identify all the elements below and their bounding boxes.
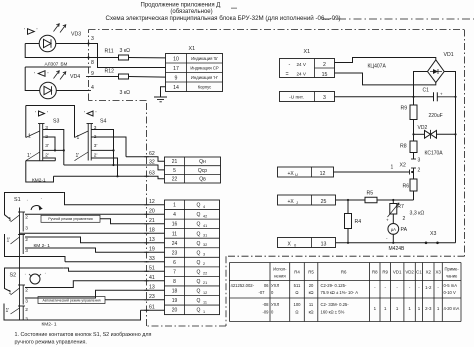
node C1 bus junction [454,96,456,98]
svg-text:': ' [37,28,38,34]
indicator symbol S3 arrow [35,111,48,117]
svg-text:2: 2 [418,168,421,174]
capacitor C1 [423,88,456,102]
wire S4 contact 3' stub [91,149,114,166]
svg-text:24 V: 24 V [297,72,307,77]
svg-text:Ручной режим управления: Ручной режим управления [48,217,93,221]
label VD1 [444,52,454,58]
svg-text:Qср: Qср [198,168,207,174]
wire VD1 right corner to plus bus [444,72,455,243]
svg-text:Q: Q [197,260,201,266]
S2 contact group 1 rail [18,285,25,305]
svg-text:12: 12 [320,171,326,177]
label KTs407A [368,64,387,70]
svg-text:VD2: VD2 [405,269,414,274]
S2 group2 lever [11,308,20,314]
svg-text:61: 61 [149,305,155,311]
svg-text:VD1: VD1 [393,269,402,274]
svg-text:Продолжение приложения Д: Продолжение приложения Д [141,3,221,9]
sheet frame dash line top right [323,18,474,20]
button S2 box [5,268,64,292]
S3 pin 1' label and lever [26,152,40,161]
svg-text:9: 9 [175,75,178,81]
svg-text:+X: +X [288,171,295,177]
svg-text:R9: R9 [382,269,388,274]
label X1 top [189,46,196,52]
wire 19 [25,247,165,253]
wire VD1 left corner to dc rail [414,72,428,97]
wire X0 bottom line [336,242,427,244]
label AL307 BM [45,62,68,67]
note line 1 [15,332,152,338]
value label 220uF [429,113,443,119]
indicator symbol 'M' arrow [34,71,49,78]
svg-text:13: 13 [149,285,155,291]
wire 13 [25,237,165,243]
switch S4 contact rail [87,124,94,161]
svg-text:62: 62 [149,151,155,157]
svg-text:Ω: Ω [295,310,298,315]
svg-text:R4: R4 [355,219,362,225]
wire S4 contact 2 to wire 62 [91,137,126,157]
svg-text:S3: S3 [53,119,59,125]
wire S3 contact 3 bridge [43,130,64,166]
unit boundary dash-dot border [89,30,465,327]
button S1 box [5,193,64,220]
svg-text:Q: Q [197,222,201,228]
svg-text:КС170А: КС170А [425,151,444,157]
svg-text:1': 1' [6,308,10,314]
svg-text:.: . [25,271,26,277]
svg-text:16: 16 [172,222,178,228]
svg-text:4-20 mA: 4-20 mA [444,306,460,311]
svg-text:S1: S1 [14,197,21,203]
svg-text:32: 32 [203,243,207,247]
svg-text:25: 25 [321,199,327,205]
S4 contact labels [94,125,98,159]
svg-text:C1: C1 [423,88,430,94]
svg-text:R5: R5 [308,269,314,274]
resistor R12 [105,69,129,80]
boundary pin ticks x=146 [144,157,148,311]
value label 3.3 kOhm [410,211,425,217]
svg-text:100: 100 [294,302,302,307]
svg-text:0-10 V: 0-10 V [444,290,457,295]
S2 group1 lever [11,288,20,295]
svg-text:X2: X2 [426,269,432,274]
label VD4 [70,74,80,80]
relay KM2-1 box S2 [4,304,141,321]
wire R5 to R6 node [377,199,414,201]
wire X1 pin15 to VD1 bottom [335,73,436,85]
resistor R5 [365,191,377,203]
title line 2 [170,9,212,15]
relay KM2-1 box S3 [26,161,56,182]
svg-text:2: 2 [403,216,406,222]
svg-text:11: 11 [172,231,177,237]
svg-text:VD3: VD3 [71,32,81,38]
boundary pin ticks x=88 [86,44,91,91]
svg-text:U: U [295,172,298,177]
svg-text:2-3: 2-3 [425,306,432,311]
switch S3 contact rail [38,124,45,161]
wire 33 [65,256,165,262]
svg-text:1: 1 [173,203,176,209]
label KM2-1 S2 [42,321,57,327]
node pin3 junction [87,42,89,44]
svg-text:13: 13 [321,241,327,247]
svg-text:С2-29- 0.125-: С2-29- 0.125- [321,283,347,288]
svg-text:.: . [27,197,28,203]
svg-text:': ' [48,72,49,78]
svg-text:3': 3' [94,143,98,149]
svg-text:3: 3 [45,125,48,131]
connector block Q outputs upper [165,157,221,183]
svg-text:2: 2 [25,215,28,221]
indicator symbol S4 arrow [84,111,97,117]
svg-text:X1: X1 [189,46,196,52]
wire S3 contact 3' stub [43,149,65,151]
wire +XJ to R5 [336,199,366,201]
wire 20 [25,209,165,215]
svg-text:C1: C1 [416,269,422,274]
svg-text:Q: Q [197,231,201,237]
svg-text:-: - [289,62,291,68]
svg-text:PA: PA [401,227,408,233]
connector X1 power box pins 2 and 15 [280,59,335,78]
svg-text:13: 13 [149,237,155,243]
svg-text:Q: Q [197,298,201,304]
svg-text:VD1: VD1 [444,52,454,58]
wire VD3 loop left and bottom to pin 8 [25,44,88,58]
svg-text:': ' [96,111,97,117]
resistor R11 [105,48,131,60]
svg-text:X2: X2 [400,163,406,169]
zener VD2 [414,130,456,139]
wire 18 [20,228,165,234]
label KS170A [425,151,444,157]
wire 63 [54,171,165,179]
svg-text:+: + [386,218,389,223]
svg-text:22: 22 [172,177,178,183]
svg-text:Испол-: Испол- [273,267,287,272]
svg-text:31: 31 [203,233,207,237]
svg-text:Схема электрическая принципиал: Схема электрическая принципиальная блока… [106,15,341,22]
wire 51 [63,266,164,272]
resistor R4 [345,200,362,243]
svg-text:-U пит.: -U пит. [289,95,304,101]
potentiometer R7 [388,200,405,223]
svg-text:6: 6 [173,260,176,266]
label VD2 [418,125,428,131]
label S1 [14,195,42,203]
svg-text:20: 20 [149,209,155,215]
svg-text:': ' [24,28,25,34]
svg-text:R6: R6 [403,184,410,190]
svg-text:Корпус: Корпус [198,84,212,89]
svg-text:4: 4 [91,85,94,91]
svg-text:=: = [286,72,289,78]
svg-text:1: 1 [9,217,12,223]
svg-text:': ' [34,72,35,78]
title line 1 [141,3,238,9]
node R4 top junction [347,199,349,201]
svg-text:2: 2 [25,307,28,313]
svg-text:21: 21 [149,218,155,224]
svg-text:21: 21 [203,281,207,285]
svg-text:23: 23 [149,294,155,300]
svg-text:кΩ: кΩ [309,290,314,295]
svg-text:VD2: VD2 [418,125,428,131]
wire VD4 loop top pin 9 [25,66,88,68]
svg-text:R9: R9 [401,106,408,112]
wire VD4 loop left and bottom to pin 4 [25,67,88,91]
svg-text:Qн: Qн [199,159,206,165]
svg-text:.: . [45,270,46,276]
svg-text:S4: S4 [100,119,106,125]
connector box +XU pin 12 [278,167,334,177]
svg-text:Qв: Qв [199,177,206,183]
wire X2 pin2 link [412,171,413,173]
svg-text:Индикация 'Н': Индикация 'Н' [191,75,218,80]
svg-text:15: 15 [322,72,328,78]
svg-text:3: 3 [323,95,326,101]
svg-text:7: 7 [173,269,176,275]
svg-text:2: 2 [25,237,28,243]
node C1 rail junction [412,96,414,98]
wire 41 [25,275,165,287]
svg-text:Q: Q [197,279,201,285]
svg-text:Q: Q [197,250,201,256]
svg-text:3: 3 [94,125,97,131]
svg-text:33: 33 [149,256,155,262]
svg-text:41: 41 [203,224,207,228]
svg-text:4: 4 [173,212,176,218]
wire S3 top link to S4 [26,106,75,138]
automatic mode label box [38,297,105,304]
svg-text:КМ2- 1: КМ2- 1 [42,321,57,327]
svg-text:511: 511 [294,283,301,288]
label VD3 [71,32,81,38]
svg-text:24 V: 24 V [297,62,307,67]
svg-text:12: 12 [203,291,207,295]
svg-text:J: J [296,200,298,205]
resistor R8 [400,134,417,152]
left common bus [19,208,21,321]
svg-text:8: 8 [173,279,176,285]
svg-text:06: 06 [264,283,269,288]
svg-text:4: 4 [203,205,205,209]
svg-text:220uF: 220uF [429,113,443,119]
svg-text:Q: Q [197,308,201,314]
svg-text:5: 5 [173,168,176,174]
connector X1 pin 3 -U pit [280,92,335,102]
jumper X3 [425,231,439,244]
indicator symbol 'B' arrow [24,28,38,34]
resistor R9 [401,97,418,135]
pin 4 label [91,85,94,91]
jumper X2 pin 2 [411,168,421,180]
wire S4 contact 2' drop [91,158,118,177]
svg-text:18: 18 [172,289,178,295]
resistor R6 [403,179,418,200]
svg-text:3: 3 [25,226,28,232]
S3 pin 1 wire and lever [26,106,40,140]
svg-text:3: 3 [25,299,28,305]
svg-text:Q: Q [197,289,201,295]
node VD2 bus junction [454,133,456,135]
svg-text:24: 24 [172,241,178,247]
svg-text:нения: нения [274,274,286,279]
wire 62 [126,151,165,161]
wire pin8 to R11 to X1 pin10 [89,57,166,59]
svg-text:R12: R12 [105,69,115,75]
svg-text:VD4: VD4 [70,74,80,80]
svg-text:2: 2 [25,288,28,294]
node R4 bottom junction [347,242,349,244]
wire VD3 top to pin 3 [25,43,88,45]
svg-text:R4: R4 [294,269,300,274]
S2 automatic actuator symbol [29,274,41,284]
wire 12 [63,193,164,206]
label S4 [100,119,106,125]
LED VD4 [40,82,57,99]
svg-text:3: 3 [25,248,28,254]
svg-text:+: + [440,92,443,97]
svg-text:3': 3' [45,143,49,149]
wire S4 contact 3 bridge [91,130,113,151]
S2 group1 labels [9,288,29,305]
svg-text:3 кΩ: 3 кΩ [120,48,131,54]
wire S3 contact 2 drop [43,137,55,150]
svg-text:R11: R11 [105,49,114,55]
svg-text:1. Состояние контактов кнопок: 1. Состояние контактов кнопок S1, S2 изо… [15,332,152,338]
jumper X2 pin 1 wire from +XU [334,165,414,175]
svg-text:20: 20 [309,283,314,288]
S3 contact labels [45,125,49,159]
S4 pin 1 label and lever [75,131,89,141]
label KM 2-1 [34,243,51,249]
wire X3 to bus corner [438,242,456,244]
svg-text:23: 23 [172,250,178,256]
svg-text:R6: R6 [341,269,347,274]
svg-text:421252.002-: 421252.002- [231,283,255,288]
svg-text:17: 17 [173,66,179,72]
svg-text:АЛ307: АЛ307 [45,62,59,67]
S1 group2 labels [7,237,29,254]
svg-text:32: 32 [149,160,155,166]
label X2 [400,163,406,169]
svg-text:1: 1 [9,290,12,296]
svg-text:С2- 33М- 0.25-: С2- 33М- 0.25- [321,302,350,307]
S1 manual actuator symbol [31,206,43,211]
svg-text:': ' [84,111,85,117]
node pin8 junction [87,56,89,58]
svg-text:X3: X3 [430,231,436,237]
S1 contact group 2 rail [18,235,25,255]
LED VD3 [39,24,66,52]
svg-text:3: 3 [203,253,205,257]
ground symbol [154,87,167,102]
node R7 tap [392,199,394,201]
svg-text:БМ: БМ [61,62,68,67]
S4 pin 1' label and lever [75,152,89,161]
svg-text:кΩ: кΩ [309,310,314,315]
svg-text:Приме-: Приме- [445,267,460,272]
S1 group1 labels [9,215,29,232]
jumper X2 pin 3 [411,153,421,164]
wire -U pit to C1 [335,96,434,98]
pin 9 label [91,71,94,77]
svg-text:': ' [35,111,36,117]
svg-text:3: 3 [418,158,421,164]
wire 32 [64,160,165,170]
svg-text:1: 1 [203,310,205,314]
svg-text:22: 22 [203,272,207,276]
svg-text:-07: -07 [258,290,265,295]
svg-text:+X: +X [288,199,295,205]
svg-text:КМ2-1: КМ2-1 [32,178,46,184]
wire 13 [25,285,165,298]
wire 61 [141,305,165,311]
svg-text:12: 12 [149,199,155,205]
svg-text:1: 1 [391,165,394,171]
svg-text:-09: -09 [262,310,269,315]
S2 contact group 2 rail [18,306,25,320]
svg-text:X1: X1 [304,49,311,55]
svg-text:Q: Q [197,212,201,218]
svg-text:2: 2 [323,62,326,68]
svg-text:Ω: Ω [295,290,298,295]
wire X1 pin2 to VD1 top [335,58,436,63]
LED VD4 emission arrows [54,71,66,80]
value label 3 kOhm R12 [120,90,131,96]
svg-text:11: 11 [309,302,314,307]
connector box X0 pin 13 [278,238,336,248]
svg-text:51: 51 [149,266,155,272]
note line 2 [15,340,87,346]
svg-text:S2: S2 [10,273,17,279]
pin 3 label [91,36,94,42]
wire R12 to X1 pin9 [89,76,166,79]
svg-text:1': 1' [7,238,11,244]
svg-text:1-2: 1-2 [425,285,432,290]
relay KM2-1 box S1 [5,234,66,262]
svg-text:14: 14 [173,85,179,91]
node PA bottom junction [392,242,394,244]
svg-text:Автоматический режим управлени: Автоматический режим управления [42,298,100,302]
svg-text:42: 42 [203,214,207,218]
bridge rectifier VD1 [428,60,445,83]
svg-text:R8: R8 [400,144,407,150]
connector block Q outputs lower [165,200,220,315]
label M424V [389,246,406,252]
manual mode label box [41,215,100,222]
label S2 [10,270,46,279]
svg-text:М424В: М424В [389,246,406,252]
components table [230,263,462,322]
wire 23 [105,294,165,300]
svg-text:X3: X3 [435,269,441,274]
svg-text:10: 10 [173,56,179,62]
svg-text:41: 41 [149,275,155,281]
svg-text:20: 20 [172,308,178,314]
svg-text:21: 21 [172,159,178,165]
svg-text:160 кΩ ± 5%: 160 кΩ ± 5% [321,310,345,315]
pin 8 label [91,60,94,66]
svg-text:ручного режима управления.: ручного режима управления. [15,340,87,346]
svg-text:2: 2 [203,262,205,266]
